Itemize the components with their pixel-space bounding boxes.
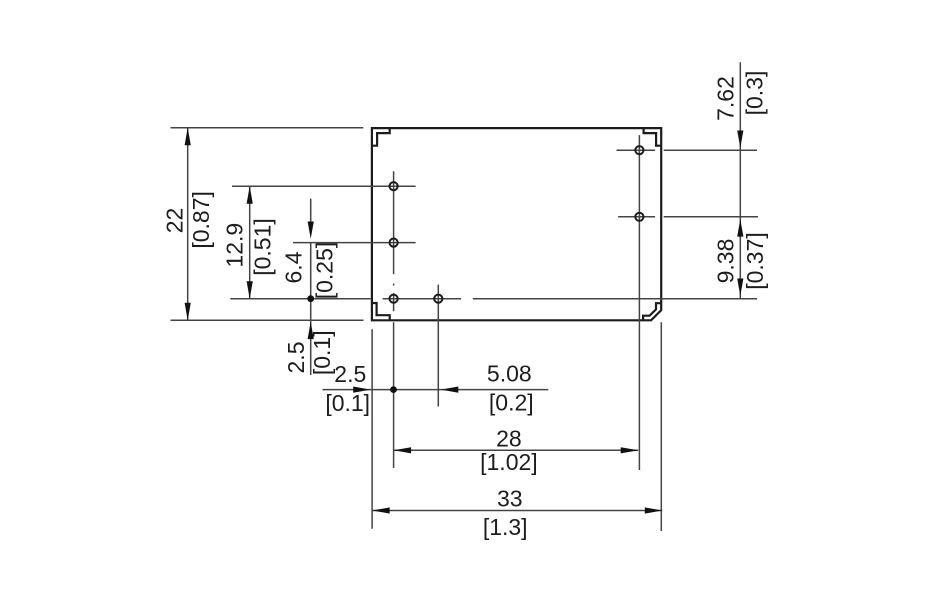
pin row centerline y=298.7 (230, 298, 757, 300)
corner notch top-right (644, 128, 662, 146)
svg-text:[0.2]: [0.2] (489, 390, 534, 416)
dimension 5.08 [0.2] (441, 361, 534, 416)
svg-text:[0.51]: [0.51] (249, 218, 275, 276)
extension line bottom for dim 22 (171, 319, 364, 321)
dimension 22 [0.87] (162, 128, 215, 320)
svg-text:28: 28 (496, 426, 522, 452)
svg-text:[0.1]: [0.1] (325, 390, 370, 416)
dimension 12.9 [0.51] (222, 186, 276, 298)
svg-text:12.9: 12.9 (222, 223, 248, 268)
pin column centerline left (393, 171, 395, 468)
pin hole P4 bottom (434, 295, 442, 303)
dimension 33 [1.3] (372, 486, 662, 540)
svg-text:[0.3]: [0.3] (742, 71, 768, 116)
body outline (372, 128, 661, 320)
corner notch bottom-right (643, 303, 661, 320)
svg-text:[0.25]: [0.25] (311, 242, 337, 300)
svg-text:[0.37]: [0.37] (742, 232, 768, 290)
svg-text:[0.1]: [0.1] (309, 330, 335, 375)
svg-text:5.08: 5.08 (487, 361, 532, 387)
pin column centerline right (638, 135, 640, 470)
dimension 2.5 [0.1] horizontal leader line (323, 361, 549, 416)
extension line top for dim 22 (171, 127, 364, 129)
corner notch top-left (372, 128, 390, 146)
corner notch bottom-left (372, 303, 390, 320)
pin hole P1 left (390, 182, 398, 190)
pin row centerline y=242 (293, 242, 416, 244)
svg-text:[1.3]: [1.3] (483, 514, 528, 540)
dimension 7.62 [0.3] (713, 62, 768, 298)
svg-text:[1.02]: [1.02] (480, 449, 538, 475)
svg-text:2.5: 2.5 (283, 342, 309, 374)
pin hole P5 right top (635, 146, 643, 154)
svg-text:[0.87]: [0.87] (188, 191, 214, 249)
svg-text:33: 33 (497, 486, 523, 512)
dimension 9.38 [0.37] (713, 219, 768, 295)
pin hole P2 left (390, 239, 398, 247)
dimension 2.5 [0.1] vertical (283, 322, 335, 375)
pin hole P3 left (390, 295, 398, 303)
dimension 6.4 [0.25] (281, 199, 338, 375)
pin row centerline y=216.8 right (618, 216, 758, 218)
extension line body right edge extended (660, 322, 662, 531)
extension line body left edge extended (371, 329, 373, 528)
svg-text:9.38: 9.38 (713, 239, 739, 284)
pin row centerline y=186 (232, 185, 416, 187)
pin column centerline second (437, 285, 439, 407)
svg-text:7.62: 7.62 (713, 76, 739, 121)
svg-text:6.4: 6.4 (281, 251, 307, 283)
pin row centerline y=150 right (617, 149, 758, 151)
svg-text:22: 22 (162, 208, 188, 234)
pin hole P6 right (635, 213, 643, 221)
svg-text:2.5: 2.5 (334, 361, 366, 387)
dimension 28 [1.02] (394, 426, 639, 476)
